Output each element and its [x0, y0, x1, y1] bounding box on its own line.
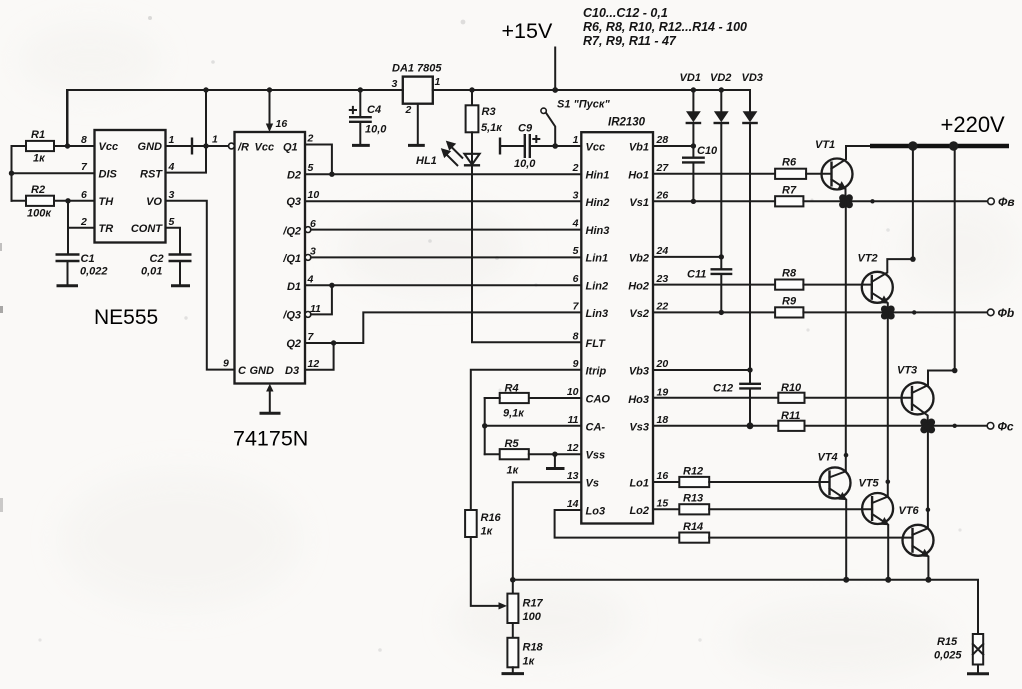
svg-text:74175N: 74175N [233, 427, 308, 451]
svg-text:VD2: VD2 [710, 72, 731, 84]
node speck on VT5 riser [886, 480, 891, 485]
svg-text:2: 2 [307, 133, 314, 145]
node C10/Vs1 [691, 199, 696, 204]
svg-text:2: 2 [405, 104, 412, 116]
node DIS junction [9, 171, 14, 176]
shunt resistor R15 0,025 [973, 634, 983, 665]
svg-text:C11: C11 [687, 269, 706, 281]
svg-text:1к: 1к [507, 465, 520, 477]
wire DIS to left vertical [12, 172, 95, 174]
node rail/VT2 riser [908, 141, 917, 150]
svg-text:Vcc: Vcc [255, 142, 275, 154]
svg-text:C12: C12 [713, 383, 733, 395]
wire HL1 cathode down to FLT [472, 165, 581, 342]
svg-text:R8: R8 [782, 268, 797, 280]
node VT4 emitter/common [843, 577, 849, 583]
wire VD1 to Vb1 [692, 123, 694, 157]
svg-text:1к: 1к [33, 153, 46, 165]
svg-text:Q1: Q1 [283, 142, 298, 154]
svg-text:Фв: Фв [998, 195, 1015, 209]
svg-text:Lin1: Lin1 [586, 253, 609, 265]
svg-text:RST: RST [140, 169, 163, 181]
resistor R1 1к [12, 145, 27, 147]
svg-text:26: 26 [656, 190, 669, 202]
wire VT4 emitter to common [830, 488, 847, 579]
wire VT6 emitter to common [913, 546, 929, 580]
svg-text:Hin1: Hin1 [586, 170, 610, 182]
svg-text:C9: C9 [518, 123, 533, 135]
svg-text:5: 5 [169, 216, 175, 228]
svg-text:+220V: +220V [941, 112, 1006, 137]
node R1/Vcc riser [65, 143, 70, 148]
svg-text:R16: R16 [481, 512, 502, 524]
capacitor C1 0,022 [56, 255, 80, 262]
svg-text:TR: TR [99, 223, 114, 235]
svg-text:CAO: CAO [586, 393, 611, 405]
svg-text:R7: R7 [782, 185, 797, 197]
resistor R13 (Lo2 to VT5 base) [653, 508, 679, 510]
resistor R8 (Ho2 to VT2 base) [653, 284, 775, 286]
svg-text:Vs3: Vs3 [629, 421, 649, 433]
node C11/Vs2 [719, 310, 724, 315]
svg-text:1к: 1к [481, 526, 494, 538]
svg-text:10: 10 [567, 386, 579, 398]
svg-text:R18: R18 [523, 642, 544, 654]
node S1/C9/Vcc [552, 143, 558, 149]
wire R4-R5 left vertical [484, 398, 486, 454]
svg-text:D1: D1 [287, 281, 301, 293]
pin 16 Vcc riser with arrow [269, 90, 271, 125]
svg-text:TH: TH [99, 196, 115, 208]
svg-text:Hin3: Hin3 [586, 225, 610, 237]
svg-text:R4: R4 [505, 383, 519, 395]
node CA- junction [482, 423, 487, 428]
wire Itrip pin9 [471, 370, 582, 510]
node VT2 collector corner [910, 256, 916, 262]
quad flip-flop 74175N U2 [235, 132, 306, 384]
svg-text:C4: C4 [367, 104, 381, 116]
svg-text:Q2: Q2 [286, 338, 301, 350]
node Vss/ground [552, 452, 557, 457]
node speck on VT4 riser [844, 453, 849, 458]
svg-text:R2: R2 [31, 184, 45, 196]
wire VD2 to Vb2 [720, 123, 722, 269]
ground C4 [352, 144, 370, 147]
svg-text:4: 4 [572, 217, 579, 229]
wire VT6 collector [913, 528, 928, 535]
ground R18 [512, 667, 514, 672]
ground R15 [977, 665, 979, 673]
svg-text:FLT: FLT [586, 338, 607, 350]
wire phase B (Фb) line [803, 311, 987, 313]
svg-text:/Q3: /Q3 [282, 310, 301, 322]
svg-text:VT6: VT6 [899, 505, 920, 517]
node Vb1/C10 [691, 143, 696, 148]
wire VO to 74175 clock C [166, 201, 235, 370]
wire GND pin1 [166, 145, 207, 147]
svg-text:3: 3 [169, 189, 175, 201]
svg-text:C2: C2 [150, 253, 164, 265]
node VT3 collector corner [952, 368, 958, 374]
wire DA1 pin2 to ground [417, 104, 419, 145]
svg-text:D2: D2 [287, 170, 301, 182]
wire common emitter rail [513, 580, 978, 634]
svg-text:VT1: VT1 [815, 139, 835, 151]
svg-text:0,022: 0,022 [80, 266, 108, 278]
wire Vb1 pin28 [653, 145, 693, 147]
svg-text:Vb1: Vb1 [629, 142, 649, 154]
node rail/74175 Vcc16 riser [267, 87, 272, 92]
svg-text:R11: R11 [781, 410, 800, 422]
wire CA- pin11 [485, 425, 582, 427]
node rail/VD2 [719, 87, 724, 92]
svg-text:1: 1 [169, 134, 175, 146]
svg-text:Vb3: Vb3 [629, 366, 649, 378]
svg-text:/R: /R [237, 142, 249, 154]
svg-text:28: 28 [656, 134, 669, 146]
svg-text:DIS: DIS [99, 169, 118, 181]
svg-text:8: 8 [573, 330, 579, 342]
svg-text:Vs: Vs [586, 478, 599, 490]
svg-text:3: 3 [573, 190, 579, 202]
svg-text:R17: R17 [523, 598, 544, 610]
capacitor C11 [711, 269, 733, 274]
wire VT5 collector riser [887, 312, 889, 496]
capacitor C4 10,0 [359, 90, 361, 116]
svg-text:Lin2: Lin2 [586, 280, 609, 292]
wire VT3 emitter to phase C [912, 404, 928, 426]
ground C1 [57, 284, 79, 287]
svg-text:4: 4 [307, 274, 314, 286]
wiper arrow R17 [499, 602, 508, 609]
svg-text:14: 14 [567, 498, 579, 510]
node small on phase A [870, 199, 874, 203]
svg-text:10,0: 10,0 [365, 124, 387, 136]
svg-text:100: 100 [523, 611, 542, 623]
wire VT4 collector [830, 471, 846, 477]
node rail/C4 [358, 87, 363, 92]
wire phase A (Фв) line [803, 200, 987, 202]
wire Vcc riser [67, 90, 69, 146]
svg-text:Lo2: Lo2 [629, 505, 649, 517]
wire VT5 emitter to common [872, 514, 888, 580]
svg-text:Ho2: Ho2 [628, 280, 649, 292]
svg-text:IR2130: IR2130 [608, 117, 646, 129]
driver IR2130 U3 [581, 132, 653, 523]
svg-text:D3: D3 [285, 365, 299, 377]
ground DA1 [408, 144, 425, 147]
svg-text:Vb2: Vb2 [629, 253, 649, 265]
svg-text:19: 19 [657, 386, 669, 398]
svg-text:/Q2: /Q2 [282, 225, 301, 237]
node VT1 emitter junction blob [839, 194, 846, 201]
svg-text:5,1к: 5,1к [481, 122, 503, 134]
resistor R5 1к [485, 453, 500, 455]
wire VT6 collector riser [927, 426, 929, 528]
svg-text:5: 5 [573, 245, 579, 257]
svg-text:6: 6 [81, 189, 87, 201]
svg-text:16: 16 [657, 470, 669, 482]
svg-text:CONT: CONT [131, 223, 163, 235]
ground C2 [171, 284, 190, 287]
wire VT1 collector to rail [832, 146, 847, 169]
svg-text:Hin2: Hin2 [586, 197, 610, 209]
svg-text:9,1к: 9,1к [503, 408, 525, 420]
svg-text:Ho3: Ho3 [628, 394, 649, 406]
terminal Фв [988, 198, 995, 205]
node VT3 emitter junction blob [920, 419, 928, 427]
node rail/R3 [469, 87, 474, 92]
svg-text:8: 8 [81, 134, 87, 146]
svg-text:CA-: CA- [586, 421, 606, 433]
node C12/Vs3 [747, 422, 754, 429]
terminal Фс [987, 423, 994, 430]
wire phase C (Фс) line [805, 425, 988, 427]
svg-text:C1: C1 [81, 253, 95, 265]
node rail/NE555-74175 riser [203, 87, 208, 92]
svg-text:Lo3: Lo3 [586, 506, 606, 518]
svg-text:6: 6 [573, 273, 579, 285]
svg-text:R7, R9, R11 - 47: R7, R9, R11 - 47 [583, 34, 677, 48]
node small on phase C [953, 424, 957, 428]
svg-text:R15: R15 [937, 636, 958, 648]
wire R16 to R17 wiper [471, 537, 500, 606]
wire Lo3 pin14 to R14 row [555, 510, 680, 538]
svg-text:15: 15 [657, 497, 669, 509]
svg-text:VT3: VT3 [897, 365, 917, 377]
node Vb3/VD3 [747, 367, 752, 372]
svg-text:C10...C12 - 0,1: C10...C12 - 0,1 [583, 6, 668, 20]
resistor R4 9,1к [529, 397, 582, 399]
svg-text:1: 1 [212, 134, 218, 146]
svg-text:1: 1 [435, 76, 441, 88]
svg-text:R6, R8, R10, R12...R14 - 100: R6, R8, R10, R12...R14 - 100 [583, 20, 747, 34]
svg-text:1: 1 [573, 134, 579, 146]
svg-text:Фb: Фb [998, 306, 1015, 320]
wire R17 to R18 [512, 623, 514, 638]
svg-text:DA1 7805: DA1 7805 [392, 63, 442, 75]
node rail/VT3 riser [949, 141, 958, 150]
svg-text:Lin3: Lin3 [586, 308, 609, 320]
resistor R9 (Vs2 phase) [653, 311, 775, 313]
resistor R3 5,1к [471, 90, 473, 105]
resistor R11 (Vs3 phase) [653, 425, 778, 427]
svg-text:R6: R6 [782, 157, 797, 169]
wire TR [68, 227, 95, 229]
svg-text:R5: R5 [505, 438, 520, 450]
wire left vertical R1-R2 [11, 146, 13, 201]
svg-text:C10: C10 [697, 145, 718, 157]
node D1//Q3 [329, 283, 334, 288]
svg-text:Q3: Q3 [286, 196, 301, 208]
svg-text:VO: VO [146, 196, 162, 208]
svg-text:C: C [238, 365, 247, 377]
capacitor C12 [739, 384, 761, 389]
svg-text:VT5: VT5 [859, 478, 880, 490]
node Q2/D3 [331, 340, 336, 345]
svg-text:HL1: HL1 [416, 155, 437, 167]
svg-text:5: 5 [308, 162, 314, 174]
resistor R12 (Lo1 to VT4 base) [653, 481, 679, 483]
svg-text:S1 "Пуск": S1 "Пуск" [557, 99, 610, 111]
wire +220V rail [846, 145, 872, 147]
svg-text:Lo1: Lo1 [629, 478, 649, 490]
svg-text:R9: R9 [782, 296, 797, 308]
wire Vs pin13 [513, 482, 582, 593]
svg-text:Ho1: Ho1 [628, 170, 649, 182]
svg-text:2: 2 [80, 216, 87, 228]
svg-text:23: 23 [656, 273, 669, 285]
node speck on VT6 riser [926, 507, 931, 512]
svg-text:12: 12 [308, 358, 320, 370]
svg-text:/Q1: /Q1 [282, 253, 301, 265]
wire Vb2 pin24 [653, 256, 721, 258]
svg-text:1к: 1к [523, 656, 536, 668]
ground Vss [554, 454, 556, 467]
svg-text:VD3: VD3 [742, 72, 763, 84]
svg-text:VT2: VT2 [858, 253, 878, 265]
capacitor C2 0,01 [169, 255, 192, 262]
svg-text:0,025: 0,025 [934, 650, 962, 662]
potentiometer R17 100 [507, 594, 518, 623]
timer NE555 U1 [95, 130, 166, 243]
wire VT2 emitter to phase B [872, 293, 888, 313]
node rail/+15V entry [552, 87, 558, 93]
svg-text:R14: R14 [683, 521, 703, 533]
svg-text:27: 27 [656, 162, 670, 174]
node Vb2/VD2 [719, 254, 724, 259]
svg-text:4: 4 [168, 161, 175, 173]
resistor R16 1к [465, 510, 477, 537]
capacitor C10 [682, 158, 705, 163]
wire +5V top rail (7805 output to NE555/74175) [67, 90, 403, 146]
wire VT1 emitter to phase A [832, 180, 846, 202]
svg-text:Itrip: Itrip [586, 365, 607, 377]
svg-text:20: 20 [656, 358, 669, 370]
terminal Фb [987, 309, 994, 316]
node VT5 emitter/common [885, 577, 891, 583]
wire RST riser (rail to RST) [166, 90, 207, 173]
svg-text:+15V: +15V [502, 19, 553, 43]
node small on phase B [912, 310, 916, 314]
svg-text:24: 24 [656, 245, 669, 257]
node rail/VD1 [691, 87, 696, 92]
svg-text:R10: R10 [781, 382, 802, 394]
svg-text:22: 22 [656, 301, 669, 313]
svg-text:16: 16 [276, 118, 288, 130]
wire VT2 collector to rail riser [872, 146, 913, 282]
polarity plus C9 [533, 136, 539, 142]
LED HL1 [471, 132, 473, 153]
svg-text:11: 11 [310, 303, 321, 315]
svg-text:Vss: Vss [586, 450, 606, 462]
regulator DA1 7805 [403, 77, 433, 104]
wire VT4 collector riser [845, 201, 847, 471]
node TH/C1 [65, 198, 70, 203]
svg-text:10: 10 [308, 189, 320, 201]
resistor R14 (Lo3 to VT6 base) [679, 533, 709, 543]
svg-text:3: 3 [392, 78, 398, 90]
svg-text:R3: R3 [482, 106, 496, 118]
polarity plus C4 [350, 107, 356, 113]
node VT2 emitter junction blob [881, 306, 888, 313]
svg-text:Vcc: Vcc [99, 141, 119, 153]
terminal bar C9 left [499, 138, 501, 155]
svg-text:Vcc: Vcc [586, 142, 606, 154]
svg-text:Vs2: Vs2 [629, 308, 649, 320]
svg-text:VD1: VD1 [680, 72, 701, 84]
svg-text:11: 11 [568, 414, 579, 426]
resistor R7 (Vs1 phase) [653, 200, 775, 202]
svg-text:R1: R1 [31, 129, 45, 141]
svg-text:10,0: 10,0 [514, 158, 536, 170]
ground 74175 GND arrow [266, 384, 273, 392]
LED arrows HL1 [452, 148, 462, 158]
svg-text:2: 2 [572, 162, 579, 174]
svg-text:13: 13 [567, 470, 579, 482]
svg-text:NE555: NE555 [94, 306, 158, 329]
node GND1//R junction [203, 143, 208, 148]
resistor R10 (Ho3 to VT3 base) [653, 397, 778, 399]
svg-text:GND: GND [250, 365, 275, 377]
node Vs/common rail [510, 577, 516, 583]
wire +15V riser [554, 48, 556, 91]
wire +15V top rail (7805 input side) [433, 90, 750, 111]
wire VT5 collector [872, 497, 888, 503]
wire Vb3 pin20 [653, 369, 750, 371]
svg-text:VT4: VT4 [818, 452, 838, 464]
svg-text:18: 18 [657, 414, 669, 426]
resistor R18 1к [507, 638, 518, 668]
svg-text:R12: R12 [683, 466, 703, 478]
svg-text:100к: 100к [27, 208, 52, 220]
node VT6 emitter/common [925, 577, 931, 583]
svg-text:9: 9 [223, 358, 229, 370]
wire CONT to C2 [166, 228, 181, 254]
switch S1 "Пуск" [541, 108, 546, 113]
capacitor C9 10,0 [501, 145, 524, 147]
node Q1/D2 [329, 172, 334, 177]
terminal bar GND pin1 [191, 138, 193, 155]
resistor R6 (Ho1 to VT1 base) [653, 173, 775, 175]
svg-text:12: 12 [567, 442, 579, 454]
wire TH-TR-C1 vertical [67, 201, 69, 254]
svg-text:Фс: Фс [998, 419, 1014, 433]
svg-text:9: 9 [573, 358, 579, 370]
wire VT3 collector to rail riser [912, 146, 955, 393]
svg-text:Vs1: Vs1 [629, 197, 649, 209]
svg-text:R13: R13 [683, 493, 703, 505]
svg-text:0,01: 0,01 [141, 266, 162, 278]
svg-text:GND: GND [138, 141, 163, 153]
resistor R2 100к [12, 200, 27, 202]
wire VD3 to Vb3 [749, 123, 751, 383]
